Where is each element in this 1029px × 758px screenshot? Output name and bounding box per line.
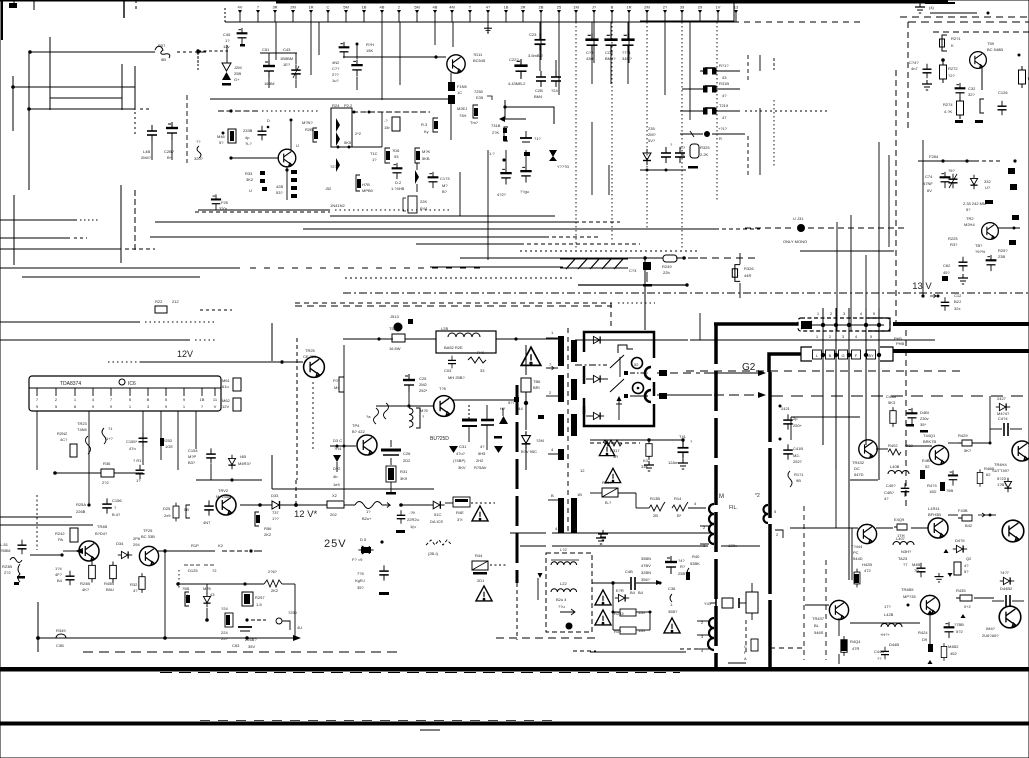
wire bus y293 dashdot [343, 292, 1029, 294]
svg-text:D: D [267, 118, 270, 123]
box K5 left dashed [907, 22, 909, 130]
border tick top-left [1, 0, 3, 40]
capacitor C2B2 [381, 449, 401, 452]
svg-text:Y41: Y41 [704, 601, 712, 606]
wire x760 a [759, 55, 761, 71]
IC U6 pin 7 [147, 388, 149, 396]
warning triangle C36 [664, 618, 680, 633]
pad K5 b [1010, 184, 1017, 190]
svg-text:5: 5 [774, 509, 777, 514]
transistor TR48 [79, 541, 99, 561]
svg-text:202: 202 [330, 512, 337, 517]
svg-text:1?B?: 1?B? [997, 482, 1007, 487]
svg-text:U: U [296, 143, 299, 148]
transistor T?444 [857, 524, 876, 543]
svg-text:TR23: TR23 [77, 421, 88, 426]
svg-text:R.3: R.3 [421, 122, 428, 127]
ground transformer [598, 530, 608, 540]
diode D?3 [415, 170, 419, 184]
wire drop 6 [434, 22, 436, 45]
warning triangle L22a [595, 590, 611, 605]
svg-text:1R: 1R [308, 5, 313, 10]
wire bus y267 [430, 266, 563, 268]
wire y111 dots [745, 110, 830, 112]
svg-text:R326: R326 [744, 266, 754, 271]
svg-text:2M2: 2M2 [419, 382, 428, 387]
warning triangle K15b [476, 586, 492, 601]
svg-text:235: 235 [648, 126, 655, 131]
left module border bottom [516, 583, 518, 640]
ground K3 [644, 461, 654, 471]
wire module dashed v2 [825, 560, 827, 660]
resistor M?K [415, 148, 420, 163]
svg-text:??gu: ??gu [520, 189, 529, 194]
svg-text:*2: *2 [755, 493, 760, 499]
svg-text:BC545: BC545 [473, 58, 486, 63]
svg-text:544D: 544D [853, 556, 863, 561]
svg-text:R424: R424 [918, 630, 928, 635]
svg-text:C63: C63 [232, 643, 240, 648]
svg-text:C?3: C?3 [586, 50, 594, 55]
resistor R317 [603, 440, 622, 446]
wire vert x272 [271, 323, 273, 361]
resistor R45B [110, 562, 117, 583]
wire x700 conn [699, 313, 701, 340]
svg-text:H7B: H7B [362, 182, 370, 187]
svg-text:R25A: R25A [76, 502, 86, 507]
svg-text:B: B [611, 5, 614, 10]
svg-text:TB6: TB6 [533, 379, 541, 384]
svg-text:MP?35: MP?35 [903, 594, 916, 599]
svg-text:J513: J513 [390, 314, 399, 319]
module box left border thick dashed [714, 324, 718, 670]
svg-text:L: L [816, 353, 819, 358]
transformer T1 pin B [548, 499, 558, 501]
capacitor CO2 [604, 33, 617, 53]
capacitor trimmer [949, 174, 958, 188]
svg-text:2421: 2421 [781, 406, 791, 411]
svg-text:BA52 R2E: BA52 R2E [444, 345, 463, 350]
svg-text:29: 29 [698, 5, 703, 10]
svg-text:DC: DC [854, 466, 860, 471]
svg-text:R31: R31 [400, 469, 408, 474]
transistor TR437 [829, 600, 848, 619]
ground C?4? [922, 80, 932, 90]
svg-text:53?: 53? [276, 190, 283, 195]
capacitor C40 [665, 556, 677, 574]
diode E?R [615, 594, 629, 601]
svg-text:H?: H? [500, 406, 506, 411]
wire T?5 collector [452, 399, 517, 401]
wire IC U6 pin drop x89 [88, 411, 90, 505]
svg-text:34M?: 34M? [622, 56, 633, 61]
svg-text:R44: R44 [475, 553, 483, 558]
capacitor C32b [481, 419, 494, 422]
resistor T219 [680, 110, 704, 112]
svg-text:?: ? [114, 505, 117, 510]
svg-text:22b: 22b [663, 270, 670, 275]
test point J513 [394, 323, 403, 332]
arrow TR48 base [75, 548, 83, 554]
svg-text:?2: ?2 [212, 568, 217, 573]
svg-text:R429: R429 [958, 433, 968, 438]
wire node x707 right [712, 133, 745, 135]
svg-text:1e9: 1e9 [333, 482, 340, 487]
resistor R32 [139, 573, 145, 593]
diode K13 left [333, 455, 341, 462]
svg-text:B4: B4 [57, 578, 63, 583]
svg-text:1N41N2: 1N41N2 [330, 203, 345, 208]
svg-text:17?: 17? [884, 604, 891, 609]
svg-text:5?: 5? [966, 207, 971, 212]
svg-text:C32: C32 [968, 86, 976, 91]
wire bus y268 [0, 267, 240, 269]
resistor E409 [894, 524, 907, 530]
svg-text:B: B [147, 397, 150, 402]
svg-text:?7?1: ?7?1 [622, 50, 632, 55]
resistor R257 [242, 592, 253, 606]
svg-text:9B: 9B [796, 478, 801, 483]
svg-text:+?1?: +?1? [718, 126, 728, 131]
node y258 [643, 256, 647, 260]
capacitor R51 [620, 627, 636, 634]
svg-text:B?V 95C: B?V 95C [521, 449, 537, 454]
wire IC U6 pin drop x37 [36, 411, 38, 470]
IC U6 pin 3 [74, 388, 76, 396]
svg-text:35B?: 35B? [668, 609, 678, 614]
svg-text:5V?: 5V? [648, 138, 656, 143]
wire drop to yoke [644, 258, 646, 330]
pad K5 c [985, 200, 993, 204]
resistor R271 [940, 35, 948, 51]
svg-text:1: 1 [816, 334, 819, 339]
svg-text:TR4B: TR4B [97, 524, 108, 529]
svg-text:53BK: 53BK [690, 561, 700, 566]
wire vert left B [28, 52, 30, 190]
inductor L12 [551, 562, 577, 565]
wire x774 top [773, 58, 775, 70]
diode Y444D [549, 150, 557, 157]
capacitor C36a [661, 147, 671, 163]
svg-text:R3?: R3? [950, 242, 958, 247]
wire horiz left F [0, 248, 121, 250]
svg-text:M4B2: M4B2 [948, 644, 959, 649]
inductor L?? 320 [197, 146, 201, 158]
warning triangle K14b [605, 468, 620, 482]
label D125 [184, 564, 214, 566]
resistor R?1? [700, 70, 704, 72]
yoke bracket [618, 345, 633, 353]
wire vert left C [49, 37, 51, 110]
transformer T3 winding loops right [764, 505, 769, 523]
svg-text:BC 33B: BC 33B [141, 534, 155, 539]
yoke switch 1 [610, 355, 624, 368]
connector PH5 wire [812, 324, 884, 326]
wire vert left G [134, 190, 136, 250]
svg-text:0+2: 0+2 [964, 604, 972, 609]
svg-text:M?P: M?P [188, 454, 197, 459]
svg-text:R234: R234 [602, 480, 612, 485]
svg-text:C62: C62 [943, 263, 951, 268]
svg-text:H42B: H42B [862, 562, 872, 567]
wire vert x296 dashed [295, 480, 297, 506]
svg-text:25B: 25B [234, 71, 241, 76]
yoke connector box outline [584, 332, 654, 358]
rail 12V ext [401, 504, 430, 506]
IC U6 TDA8374 box [29, 376, 221, 411]
yoke loop out 2 [645, 390, 651, 402]
svg-text:C25: C25 [419, 376, 427, 381]
capacitor C4?8 [948, 470, 958, 485]
capacitor K2 mid [520, 137, 532, 139]
capacitor C25 [403, 374, 415, 392]
svg-text:R225: R225 [948, 236, 958, 241]
svg-text:?2?: ?2? [330, 164, 337, 169]
svg-text:?253: ?253 [163, 438, 173, 443]
svg-text:15K: 15K [366, 48, 373, 53]
svg-text:4N7: 4N7 [203, 520, 211, 525]
svg-text:52: 52 [925, 464, 930, 469]
arrow K13b [449, 446, 458, 453]
svg-text:45?: 45? [943, 270, 950, 275]
wire vert x488 [487, 150, 489, 260]
svg-text:16.5W: 16.5W [389, 346, 401, 351]
yoke circle B [633, 383, 644, 394]
wire vert x889 [888, 155, 890, 247]
resistor R56 [255, 512, 259, 526]
svg-text:?1?: ?1? [534, 136, 541, 141]
svg-text:R31B: R31B [719, 81, 729, 86]
capacitor C31 [462, 419, 477, 422]
wire drop 7 [452, 22, 454, 47]
node left A [11, 85, 15, 89]
svg-text:2M?: 2M? [648, 132, 657, 137]
resistor R249 [663, 255, 677, 262]
svg-text:C43B: C43B [886, 394, 896, 399]
arrow C4B [656, 580, 662, 585]
svg-text:2.2K: 2.2K [700, 152, 709, 157]
svg-text:224: 224 [221, 630, 228, 635]
resistor R13B [649, 502, 665, 511]
svg-text:?: ? [422, 414, 425, 419]
svg-text:D44B2: D44B2 [1000, 586, 1013, 591]
wire K15 rail [157, 550, 215, 552]
inductor R07 [155, 46, 170, 58]
svg-text:2?K: 2?K [492, 130, 499, 135]
svg-text:R49: R49 [477, 350, 485, 355]
svg-text:2R: 2R [520, 5, 525, 10]
connector PHB pin 3 [839, 350, 848, 359]
wire rail R07 [30, 51, 155, 53]
connector PH5 right bracket [868, 318, 890, 331]
svg-text:D34: D34 [116, 541, 124, 546]
wire y533 right [552, 532, 711, 534]
svg-text:2: 2 [776, 532, 779, 537]
wire PH5 drop x823 [822, 308, 824, 445]
svg-text:R257: R257 [255, 595, 265, 600]
wire horiz left C [29, 108, 135, 110]
svg-text:4.43MB-2: 4.43MB-2 [508, 81, 526, 86]
svg-text:7: 7 [257, 5, 260, 10]
wire PHB left thick [769, 354, 801, 372]
svg-text:356?: 356? [641, 577, 651, 582]
svg-text:R274: R274 [943, 102, 953, 107]
svg-text:5: 5 [55, 404, 58, 409]
node row y112 [352, 111, 430, 113]
svg-text:R325: R325 [700, 145, 710, 150]
wire pin bus left tick [224, 8, 226, 22]
svg-text:T59: T59 [987, 41, 995, 46]
svg-text:2K2: 2K2 [271, 588, 279, 593]
ground K5 low [958, 274, 968, 284]
wires row2 [838, 618, 840, 636]
ground R325 [688, 166, 698, 169]
wire y638 dashed [496, 637, 600, 639]
svg-text:R1P: R1P [191, 543, 199, 548]
svg-text:5H5: 5H5 [478, 451, 486, 456]
svg-text:4U: 4U [297, 625, 302, 630]
wire bus y322 [0, 321, 140, 323]
svg-text:5B: 5B [184, 507, 189, 512]
wire vert x460 [459, 172, 461, 216]
svg-text:2M4?: 2M4? [141, 155, 152, 160]
wire pad1 to loop [630, 372, 648, 374]
svg-text:C03: C03 [444, 368, 452, 373]
wire bus y216 [330, 215, 555, 217]
resistor R14 [672, 502, 688, 511]
pad CFA [751, 639, 758, 651]
svg-text:U: U [249, 188, 252, 193]
svg-text:5: 5 [870, 334, 873, 339]
inductor L40B [888, 471, 909, 475]
wire PH5 drop x836 [835, 308, 837, 470]
node left rail [27, 107, 31, 111]
svg-text:2H2: 2H2 [476, 458, 484, 463]
svg-text:M2-: M2- [793, 453, 801, 458]
svg-text:1R: 1R [626, 5, 631, 10]
svg-text:C4B: C4B [625, 569, 633, 574]
svg-text:C3B: C3B [56, 643, 64, 648]
svg-text:33: 33 [480, 368, 485, 373]
svg-text:B3?: B3? [188, 460, 196, 465]
resistor H7B [356, 175, 360, 191]
svg-text:?4?: ?4? [678, 558, 685, 563]
svg-text:12 V*: 12 V* [294, 509, 318, 520]
svg-text:IM4?: IM4? [986, 626, 996, 631]
svg-text:4: 4 [551, 447, 554, 452]
wire vert left E [134, 66, 136, 110]
resistor R274 [957, 97, 964, 119]
wire y396 dashed [771, 395, 1029, 397]
resistor M25b [203, 593, 210, 607]
svg-text:?3H: ?3H [459, 113, 466, 118]
svg-text:F1N5: F1N5 [457, 84, 468, 89]
svg-text:1?: 1? [372, 157, 377, 162]
wire bus y222 [155, 221, 575, 223]
module box inner border thick dashed [768, 372, 772, 670]
capacitor C32 [955, 83, 966, 99]
svg-text:9: 9 [92, 404, 95, 409]
transistor T10 [278, 149, 296, 167]
svg-text:R14: R14 [674, 496, 682, 501]
wire 12V out b [284, 504, 327, 506]
svg-text:T1C: T1C [370, 151, 378, 156]
module box right bottom thick [714, 667, 1029, 671]
wire x748 mid [747, 136, 749, 175]
resistor R224 [225, 613, 233, 627]
svg-text:TR4H4: TR4H4 [994, 462, 1007, 467]
wire PHB right thick [893, 349, 1029, 353]
svg-text:C4?4: C4?4 [998, 416, 1008, 421]
wire y546 [552, 545, 708, 547]
damper TB6 [521, 378, 531, 392]
svg-text:1+?: 1+? [106, 436, 114, 441]
wire K5 lower [918, 160, 975, 162]
wire conn4 up [865, 255, 867, 331]
resistor R272 [940, 61, 947, 83]
svg-text:2: 2 [829, 334, 832, 339]
svg-text:IC6: IC6 [128, 381, 136, 387]
warning triangle K14a [599, 441, 614, 455]
svg-text:2?6?: 2?6? [268, 569, 278, 574]
wire bus y244 [416, 243, 520, 245]
svg-text:CE 320: CE 320 [303, 354, 317, 359]
ground T41 [678, 459, 688, 469]
inductor L42B [881, 624, 902, 627]
diode yoke 2 [590, 375, 604, 382]
wire y32 dashed [933, 31, 1029, 33]
svg-text:R4E: R4E [456, 510, 464, 515]
svg-text:D4BI: D4BI [920, 410, 929, 415]
node ONLY MONO [797, 224, 805, 232]
wire drop 3 [318, 22, 320, 55]
wire PH5 right thick [893, 322, 1029, 326]
node x526 [524, 401, 528, 405]
svg-text:R2N2: R2N2 [57, 431, 68, 436]
wire dashdot y111 [218, 110, 260, 112]
svg-text:C74: C74 [925, 174, 933, 179]
svg-text:D125: D125 [188, 568, 198, 573]
svg-text:TR4B5: TR4B5 [901, 587, 914, 592]
svg-text:320r: 320r [219, 206, 228, 211]
svg-text:4C?: 4C? [60, 437, 68, 442]
diode D?2 [970, 175, 977, 189]
bus bar 2 dashes [200, 720, 560, 722]
svg-text:TA23: TA23 [898, 556, 908, 561]
svg-text:R4?3: R4?3 [927, 483, 937, 488]
svg-text:M?5: M?5 [420, 408, 429, 413]
svg-text:1B: 1B [362, 5, 367, 10]
wire only-mono left [745, 227, 795, 229]
wire y583 right [592, 582, 613, 584]
svg-text:C45: C45 [223, 32, 231, 37]
svg-text:5M: 5M [414, 5, 420, 10]
svg-text:7: 7 [110, 397, 113, 402]
svg-text:?1: ?1 [108, 426, 113, 431]
capacitor C43 body [291, 64, 301, 79]
svg-text:?: ? [670, 142, 673, 147]
capacitor R233 [620, 609, 636, 616]
svg-text:4n7: 4n7 [911, 66, 918, 71]
wire gnd drop [37, 602, 39, 652]
svg-text:32BN: 32BN [641, 570, 651, 575]
wire pin bus rail [225, 21, 733, 23]
coil T3 [374, 408, 379, 424]
svg-text:320?: 320? [194, 156, 204, 161]
svg-text:5M: 5M [343, 5, 349, 10]
resistor R41 [746, 592, 758, 613]
svg-text:B*: B* [677, 513, 682, 518]
